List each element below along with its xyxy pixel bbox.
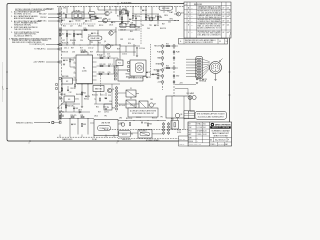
wire +15V feed xyxy=(175,84,196,86)
svg-text:K3: K3 xyxy=(68,99,70,101)
svg-text:CR13: CR13 xyxy=(78,109,82,111)
resistor R31 xyxy=(81,116,84,117)
transistor Q2 xyxy=(103,18,108,23)
transistor Q1 xyxy=(105,11,109,15)
svg-text:R27 6.8K: R27 6.8K xyxy=(119,105,125,107)
svg-text:DL1: DL1 xyxy=(88,34,91,36)
wire bottom mid main xyxy=(118,120,166,122)
svg-text:A1: A1 xyxy=(83,67,85,70)
svg-text:R18 1M: R18 1M xyxy=(81,50,87,52)
pin table J6 xyxy=(184,111,195,119)
svg-text:TO CONTROL (J2): TO CONTROL (J2) xyxy=(29,44,45,46)
svg-text:R39: R39 xyxy=(90,52,93,54)
transistor Q11 xyxy=(177,12,181,16)
svg-text:R50: R50 xyxy=(71,60,74,62)
svg-text:+24V UNREG: +24V UNREG xyxy=(33,62,45,64)
resistor R35 boxed xyxy=(171,121,179,130)
svg-text:C16 10: C16 10 xyxy=(122,54,127,56)
svg-text:K1 PLAY: K1 PLAY xyxy=(74,9,82,12)
svg-text:C19 .1: C19 .1 xyxy=(108,64,113,66)
svg-text:Q2: Q2 xyxy=(108,19,110,21)
ground under R25 xyxy=(81,106,83,108)
svg-text:CHK: CHK xyxy=(189,127,192,129)
svg-text:Q5: Q5 xyxy=(104,41,106,43)
connector P2 pin column xyxy=(116,86,118,112)
svg-text:R29: R29 xyxy=(61,116,64,118)
svg-text:C37: C37 xyxy=(125,24,128,26)
svg-text:R54: R54 xyxy=(63,26,66,28)
resistor R29 xyxy=(59,116,60,119)
ground bus mid (dashed) xyxy=(104,129,190,131)
svg-text:Z1: Z1 xyxy=(130,88,132,90)
svg-text:C29: C29 xyxy=(204,79,207,81)
svg-text:C13: C13 xyxy=(72,42,75,44)
svg-text:C17 .001: C17 .001 xyxy=(128,39,134,41)
note box relays xyxy=(128,108,158,117)
svg-text:C14 .02: C14 .02 xyxy=(88,48,94,50)
margin pencil marks xyxy=(229,9,230,16)
resistor R32 xyxy=(129,123,130,126)
svg-text:K2: K2 xyxy=(66,81,68,83)
node ERASE row xyxy=(162,63,164,65)
svg-text:CR14: CR14 xyxy=(94,115,98,117)
svg-text:C30: C30 xyxy=(61,112,64,114)
svg-text:AMPEX CORPORATION: AMPEX CORPORATION xyxy=(215,124,231,127)
resistor R23 xyxy=(99,73,102,74)
transistor Q10 xyxy=(121,123,125,127)
wire into U1 left xyxy=(61,57,74,59)
resistor R56 xyxy=(65,105,66,108)
capacitor C21 xyxy=(146,71,148,73)
resistor R46 xyxy=(157,17,158,20)
transistor Q7 xyxy=(149,103,153,107)
capacitor C32 polarized xyxy=(141,122,143,124)
capacitor C39 xyxy=(154,24,156,26)
svg-text:R48: R48 xyxy=(83,124,86,126)
plug arrow xyxy=(220,59,223,62)
svg-text:R56 6.8K: R56 6.8K xyxy=(67,106,73,108)
svg-text:3-4: 3-4 xyxy=(191,25,193,27)
junction dots mid wire xyxy=(61,44,64,47)
wire +24V top bus xyxy=(57,6,184,8)
svg-text:4-61: 4-61 xyxy=(227,20,230,22)
svg-text:C23: C23 xyxy=(154,74,157,76)
transformer T2 module xyxy=(94,120,118,136)
wire bus junctions xyxy=(59,5,62,8)
svg-text:C18: C18 xyxy=(108,56,111,58)
resistor R14 xyxy=(73,33,74,36)
contact K2B xyxy=(130,24,135,28)
svg-text:C3 .01: C3 .01 xyxy=(87,20,92,22)
relay K3 xyxy=(64,96,75,102)
svg-text:R31: R31 xyxy=(81,115,84,117)
svg-text:K4: K4 xyxy=(131,134,133,136)
delay line DL2 xyxy=(159,6,173,10)
connector J5 pictorial strip xyxy=(196,57,203,79)
svg-text:R41: R41 xyxy=(121,12,124,14)
diode CR13 xyxy=(79,111,81,113)
capacitor C10 xyxy=(77,33,79,35)
svg-text:SEE NOTE 5: SEE NOTE 5 xyxy=(122,139,131,141)
svg-text:C38 .047: C38 .047 xyxy=(120,29,126,31)
wire gate nets xyxy=(117,92,126,94)
resistor R15 xyxy=(84,29,87,30)
svg-text:3-4: 3-4 xyxy=(191,8,193,10)
svg-text:R15: R15 xyxy=(84,28,87,30)
svg-text:R45: R45 xyxy=(130,31,133,33)
next assy block xyxy=(179,136,189,141)
svg-text:TP2: TP2 xyxy=(160,116,163,118)
svg-text:R34 1K: R34 1K xyxy=(152,117,157,119)
transistor Q8 xyxy=(175,113,179,117)
svg-text:30-21653-01 SHEET 2.: 30-21653-01 SHEET 2. xyxy=(14,35,33,37)
capacitor C52 xyxy=(67,89,69,91)
transistor Q4 xyxy=(106,44,111,49)
svg-text:WINDINGS SHOWN.: WINDINGS SHOWN. xyxy=(14,24,32,26)
svg-text:9-61: 9-61 xyxy=(203,127,206,129)
svg-text:C1: C1 xyxy=(63,20,65,22)
svg-text:R43 100: R43 100 xyxy=(130,25,136,27)
resistor R13 xyxy=(66,33,67,36)
pin stubs left xyxy=(56,84,58,86)
ground left of U1 xyxy=(63,63,65,65)
svg-text:ARE IN MICROFARADS.: ARE IN MICROFARADS. xyxy=(14,17,35,20)
vertical feeder wire (dashed) xyxy=(140,7,142,45)
contact K1B xyxy=(120,23,126,27)
connector P1 board-edge bus xyxy=(58,8,60,121)
capacitor C43 xyxy=(71,123,73,125)
svg-text:10-61: 10-61 xyxy=(203,134,207,136)
connector J4 column xyxy=(173,44,175,96)
resistor R21 xyxy=(100,57,103,58)
svg-text:R36 680: R36 680 xyxy=(70,40,76,42)
svg-text:R35: R35 xyxy=(171,119,174,121)
resistor R59 xyxy=(121,17,122,20)
resistor R60 xyxy=(127,13,128,16)
svg-text:C11 .05: C11 .05 xyxy=(93,33,99,35)
svg-text:R22 47K: R22 47K xyxy=(100,64,107,66)
svg-text:C46 .5: C46 .5 xyxy=(103,106,108,108)
capacitor C28 xyxy=(196,78,198,80)
resistor R25 xyxy=(81,92,82,95)
svg-text:C33 50: C33 50 xyxy=(136,117,141,119)
svg-text:C24: C24 xyxy=(87,96,90,98)
svg-text:RECORD: RECORD xyxy=(154,46,162,48)
svg-text:FINISH: FINISH xyxy=(189,141,193,143)
wire y26 xyxy=(119,26,140,28)
solenoid L2 xyxy=(119,131,131,138)
wire motor drops xyxy=(171,118,173,130)
svg-text:C4: C4 xyxy=(113,22,115,24)
svg-text:R21 10K: R21 10K xyxy=(100,56,107,58)
motor pins xyxy=(128,62,130,64)
svg-text:MOTOR RLY: MOTOR RLY xyxy=(139,130,147,132)
svg-text:R19: R19 xyxy=(117,49,120,51)
svg-text:BIAS OSC: BIAS OSC xyxy=(38,20,47,23)
connector J3 column xyxy=(162,44,164,90)
svg-text:R26 220: R26 220 xyxy=(92,95,98,97)
svg-text:K2B: K2B xyxy=(131,22,134,24)
svg-text:SH 1: SH 1 xyxy=(225,144,228,146)
capacitor C41 xyxy=(142,9,144,11)
svg-text:DR: DR xyxy=(189,123,191,125)
svg-text:R62: R62 xyxy=(60,99,63,101)
transistor Q6 xyxy=(107,88,111,92)
wire K2 nets xyxy=(60,78,63,80)
wire mid nets xyxy=(59,44,120,46)
wire verticals 122/128/136 xyxy=(121,14,123,27)
plug P5 shell xyxy=(210,62,222,74)
svg-text:R32 2.2K: R32 2.2K xyxy=(126,118,132,120)
svg-text:C45: C45 xyxy=(65,60,68,62)
svg-text:TP5: TP5 xyxy=(104,115,107,117)
svg-text:C2: C2 xyxy=(71,21,73,23)
svg-text:ENG: ENG xyxy=(189,130,192,132)
svg-text:C22: C22 xyxy=(148,77,151,79)
capacitor C2 xyxy=(69,20,71,22)
svg-text:C39: C39 xyxy=(156,25,159,27)
svg-text:30-21653-01: 30-21653-01 xyxy=(215,139,226,141)
svg-text:C20: C20 xyxy=(108,72,111,74)
inductor L3 pill xyxy=(90,17,97,20)
delay line DL1 xyxy=(88,36,102,40)
resistor R2 xyxy=(89,15,90,18)
svg-text:3-4: 3-4 xyxy=(191,32,193,34)
svg-text:GND: GND xyxy=(176,76,179,78)
svg-text:C47: C47 xyxy=(70,26,73,28)
svg-text:C43: C43 xyxy=(73,124,76,126)
pin P3 remote xyxy=(52,121,54,123)
svg-text:Q11: Q11 xyxy=(181,13,184,15)
capacitor C46 xyxy=(105,97,107,99)
svg-text:CR9: CR9 xyxy=(137,28,140,30)
box A3 oscillator xyxy=(93,86,104,92)
wire remote to stack xyxy=(54,122,60,124)
svg-text:R64 330: R64 330 xyxy=(76,94,82,96)
capacitor C51 xyxy=(135,17,137,19)
svg-text:R61: R61 xyxy=(59,92,62,94)
svg-text:C21: C21 xyxy=(148,72,151,74)
svg-text:DL2 20MS: DL2 20MS xyxy=(162,8,169,10)
resistor R24 xyxy=(74,84,75,87)
svg-text:Q3: Q3 xyxy=(114,32,116,34)
resistor R33 xyxy=(147,123,148,126)
svg-text:3-4: 3-4 xyxy=(191,16,193,18)
capacitor C30 xyxy=(59,111,61,113)
wire regulator pins xyxy=(143,72,147,74)
svg-text:SOL L2: SOL L2 xyxy=(122,134,127,136)
capacitor C12 polarized xyxy=(136,47,138,49)
svg-text:C26: C26 xyxy=(108,95,111,97)
wire lower-left net xyxy=(62,111,90,113)
node REC OUT arrow xyxy=(174,20,179,22)
wire J4 stubs xyxy=(173,51,175,53)
resistor R6 xyxy=(145,15,146,18)
svg-text:C31 .1: C31 .1 xyxy=(57,108,62,110)
resistor R30 xyxy=(71,116,74,117)
svg-text:REC 24V: REC 24V xyxy=(39,14,47,16)
svg-text:REMOTE CONTROL: REMOTE CONTROL xyxy=(16,122,33,124)
capacitor C29 xyxy=(202,78,204,80)
svg-text:R37: R37 xyxy=(71,48,74,50)
gate Z2 xyxy=(126,100,136,108)
inductor L2 pill xyxy=(89,12,96,15)
wire verticals x120 x158 x164 xyxy=(119,7,121,21)
svg-text:Q9: Q9 xyxy=(153,18,155,20)
capacitor C50 xyxy=(121,21,123,23)
node MONITOR row xyxy=(162,69,164,71)
svg-text:3-4: 3-4 xyxy=(191,12,193,14)
resistor R4 xyxy=(125,11,126,14)
svg-text:R33: R33 xyxy=(149,124,152,126)
svg-text:TO RELAY K1: TO RELAY K1 xyxy=(34,48,45,51)
svg-text:R12: R12 xyxy=(61,34,64,36)
diode CR1 box xyxy=(122,10,128,14)
svg-text:C54: C54 xyxy=(109,101,112,103)
capacitor C19 xyxy=(108,65,110,67)
wire top row nets xyxy=(57,13,105,15)
svg-text:L2: L2 xyxy=(89,10,91,12)
svg-text:C53 .1: C53 .1 xyxy=(75,99,79,101)
node +24V row xyxy=(162,81,164,83)
svg-text:C27 .02: C27 .02 xyxy=(130,105,135,107)
ground bus left (dashed) xyxy=(57,136,118,138)
svg-text:C49 10: C49 10 xyxy=(104,112,109,114)
svg-text:CR12: CR12 xyxy=(78,25,82,27)
svg-text:R17: R17 xyxy=(80,48,83,50)
wire under U1 xyxy=(77,83,120,85)
svg-text:R58: R58 xyxy=(112,108,115,110)
svg-text:R16 4.7K: R16 4.7K xyxy=(62,42,69,44)
svg-text:4-61: 4-61 xyxy=(227,25,230,27)
svg-text:RECORD: RECORD xyxy=(62,76,69,78)
svg-text:D. COLE: D. COLE xyxy=(197,127,202,129)
resistor R18 above U1 xyxy=(81,51,84,52)
svg-text:E: E xyxy=(188,25,189,27)
wires into J5 strip xyxy=(186,58,197,60)
relay K4 xyxy=(138,130,152,138)
resistor R5 xyxy=(132,15,133,18)
wire bottom main xyxy=(60,118,94,120)
resistor R61 xyxy=(61,88,62,91)
module A2 regulator xyxy=(118,70,143,81)
svg-text:R23 330: R23 330 xyxy=(99,72,105,74)
node RECORD row xyxy=(162,45,164,47)
svg-text:Q1: Q1 xyxy=(110,12,112,14)
svg-text:L1: L1 xyxy=(163,12,165,14)
svg-text:R5 2.2K: R5 2.2K xyxy=(134,16,141,18)
U1 right pin stubs xyxy=(93,57,97,59)
svg-text:C10: C10 xyxy=(79,34,82,36)
svg-text:R49 22K: R49 22K xyxy=(160,28,166,30)
svg-text:CR2: CR2 xyxy=(63,8,66,10)
gate Z1 xyxy=(126,90,136,97)
relay K2 xyxy=(62,78,73,84)
svg-text:TP4: TP4 xyxy=(141,25,144,27)
connector P6 pin column xyxy=(114,66,116,68)
svg-text:C7: C7 xyxy=(83,22,85,24)
relay K1 xyxy=(72,12,84,19)
svg-text:3-4: 3-4 xyxy=(191,20,193,22)
U1 left pin stubs xyxy=(74,57,77,59)
transistor Q9 xyxy=(149,17,153,21)
svg-text:IN OHMS, 1/4 W, 5%.: IN OHMS, 1/4 W, 5%. xyxy=(14,13,32,15)
resistor R50 xyxy=(69,59,70,62)
svg-text:R52: R52 xyxy=(166,44,169,46)
svg-text:R42: R42 xyxy=(119,24,122,26)
svg-text:B: B xyxy=(188,12,189,14)
svg-text:R55 560: R55 560 xyxy=(88,26,94,28)
svg-text:TP1: TP1 xyxy=(149,25,152,27)
wire K2-K3 link xyxy=(61,84,63,96)
svg-text:C12 100: C12 100 xyxy=(139,48,145,50)
svg-text:C25 .5: C25 .5 xyxy=(100,94,105,96)
wire x112 xyxy=(111,84,113,104)
notes text block xyxy=(9,9,53,44)
node GND row xyxy=(162,75,164,77)
svg-text:T1: T1 xyxy=(94,99,96,101)
svg-text:C5: C5 xyxy=(131,19,133,21)
plug ground lead xyxy=(215,74,217,80)
svg-text:R25: R25 xyxy=(83,93,86,95)
capacitor C23 xyxy=(152,73,154,75)
svg-text:REVISIONS: REVISIONS xyxy=(194,4,202,6)
svg-text:Q4: Q4 xyxy=(111,45,113,47)
capacitor C48 xyxy=(73,107,75,109)
svg-text:Q7: Q7 xyxy=(154,104,156,106)
svg-text:Z2: Z2 xyxy=(130,98,132,100)
svg-text:LINE FILTER: LINE FILTER xyxy=(101,123,111,125)
revision history table xyxy=(184,2,231,38)
resistor R44 xyxy=(145,17,146,20)
svg-text:PB 24V: PB 24V xyxy=(40,17,47,19)
fan wires strip to plug xyxy=(203,59,210,62)
svg-text:Q8: Q8 xyxy=(180,114,182,116)
svg-text:CR10: CR10 xyxy=(164,15,168,17)
wire right vertical xyxy=(212,86,214,111)
resistor R22 xyxy=(100,65,103,66)
svg-text:USED ON: USED ON xyxy=(179,144,184,146)
svg-text:12-345: 12-345 xyxy=(82,70,87,72)
svg-text:4: 4 xyxy=(28,143,29,145)
svg-text:4-61: 4-61 xyxy=(227,16,230,18)
svg-text:C44: C44 xyxy=(147,28,150,30)
wire y30 xyxy=(118,29,140,31)
wire into T2 xyxy=(90,122,94,124)
IC Z4 xyxy=(104,104,112,110)
svg-text:REVISED PER ECO 6120: CHGD: REVISED PER ECO 6120: CHGD xyxy=(197,31,221,33)
connector P4 column xyxy=(163,122,165,136)
svg-text:R51: R51 xyxy=(96,106,99,108)
gate Z3 xyxy=(139,101,148,110)
ground bias xyxy=(105,108,107,110)
ground right xyxy=(196,82,198,84)
resistor R53 xyxy=(164,67,179,69)
svg-text:R20: R20 xyxy=(128,43,131,45)
svg-text:R3: R3 xyxy=(95,16,97,18)
svg-text:CR3: CR3 xyxy=(120,39,123,41)
svg-text:R53: R53 xyxy=(166,66,169,68)
wire bias outputs xyxy=(95,92,97,105)
IC U1 record/play logic xyxy=(76,55,93,84)
svg-text:+: + xyxy=(140,120,141,122)
capacitor C45 xyxy=(63,59,65,61)
svg-text:R46: R46 xyxy=(159,17,162,19)
svg-text:TP3: TP3 xyxy=(90,42,93,44)
capacitor C1 xyxy=(61,19,63,21)
svg-text:7-62: 7-62 xyxy=(225,41,228,43)
title block xyxy=(188,122,232,146)
